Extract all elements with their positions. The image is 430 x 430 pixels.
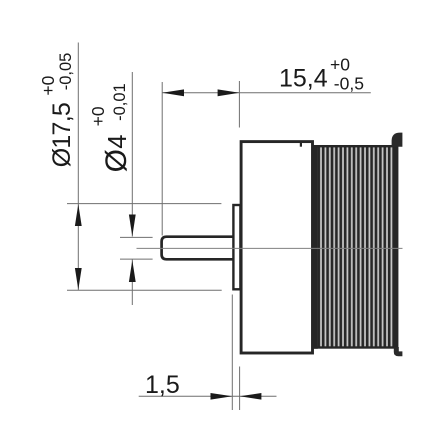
svg-text:Ø17,5: Ø17,5 (48, 103, 76, 167)
svg-text:+0: +0 (38, 75, 58, 95)
svg-text:-0,01: -0,01 (111, 83, 129, 121)
svg-text:+0: +0 (330, 54, 350, 74)
svg-text:-0,5: -0,5 (334, 73, 364, 93)
svg-text:Ø: Ø (100, 149, 133, 172)
svg-text:4: 4 (104, 135, 132, 149)
svg-text:-0,05: -0,05 (57, 53, 75, 91)
svg-text:1,5: 1,5 (145, 371, 180, 399)
svg-text:15,4: 15,4 (279, 64, 328, 92)
svg-text:+0: +0 (88, 106, 108, 126)
